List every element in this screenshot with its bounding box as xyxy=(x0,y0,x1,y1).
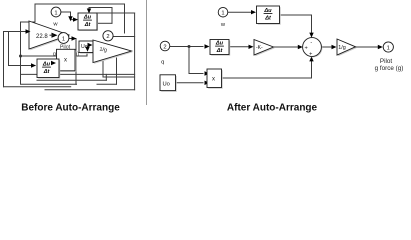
svg-text:1: 1 xyxy=(387,45,390,51)
svg-text:1/g: 1/g xyxy=(99,47,107,54)
svg-text:Pilot: Pilot xyxy=(380,58,392,65)
svg-text:-K-: -K- xyxy=(256,45,263,51)
svg-text:x: x xyxy=(212,76,215,82)
svg-text:q: q xyxy=(161,60,164,66)
svg-text:1: 1 xyxy=(221,11,224,17)
svg-text:-: - xyxy=(310,40,312,46)
svg-text:After Auto-Arrange: After Auto-Arrange xyxy=(227,103,318,114)
svg-text:22.8: 22.8 xyxy=(36,34,48,40)
svg-text:Uo: Uo xyxy=(163,81,170,87)
svg-text:1/g: 1/g xyxy=(338,45,346,51)
svg-text:+: + xyxy=(305,45,308,51)
svg-text:g force (g): g force (g) xyxy=(375,65,404,72)
svg-text:1: 1 xyxy=(62,36,65,42)
svg-text:+: + xyxy=(309,51,312,57)
svg-text:2: 2 xyxy=(163,44,166,50)
svg-text:1: 1 xyxy=(54,10,57,16)
svg-text:2: 2 xyxy=(106,34,109,40)
svg-text:x: x xyxy=(64,58,67,64)
svg-text:Before Auto-Arrange: Before Auto-Arrange xyxy=(21,103,120,114)
svg-text:w: w xyxy=(52,22,58,28)
svg-text:w: w xyxy=(220,22,226,28)
